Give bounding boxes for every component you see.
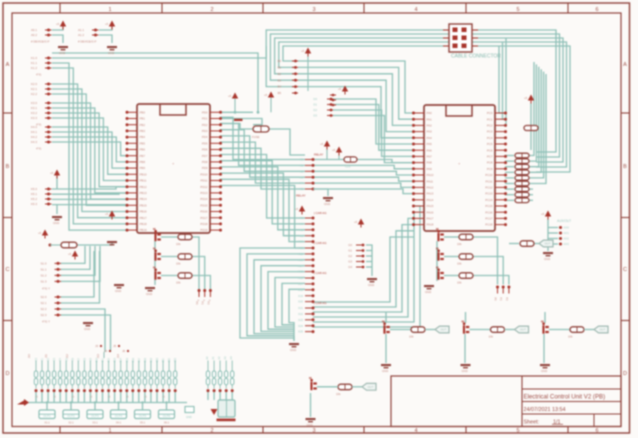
fuse F1 vcc2 stem [270,98,272,113]
svg-text:A0.1: A0.1 [31,28,37,32]
wire bottom riser 21 [162,392,164,403]
net flag FB3 [594,326,608,333]
wire net BLM0 [61,251,94,297]
svg-text:10k: 10k [457,242,462,246]
wire net BLr1 [192,257,205,290]
svg-text:PA7: PA7 [427,155,433,159]
svg-text:+5: +5 [68,252,72,256]
wire QB1 riser [385,312,387,323]
bottom header H10 [89,361,91,372]
wire net T0 [283,46,570,172]
wire net VB3 [333,116,414,163]
top cluster2 vcc [342,86,348,92]
svg-text:G4: G4 [348,265,352,269]
svg-text:P0: P0 [195,301,199,305]
wire bottom riser 17 [138,392,140,403]
wire net L12 [52,142,127,156]
svg-text:D0: D0 [313,97,317,101]
resistor RQ2 [178,254,192,259]
svg-text:PB15: PB15 [140,203,147,207]
svg-text:AX3: AX3 [564,242,570,246]
wire net R7 [505,194,514,196]
resistor RM1 [520,241,534,247]
resistor array supply vcc [528,95,534,101]
ic U2 pin left 2 [414,118,424,120]
svg-text:10k: 10k [176,281,181,285]
transistor group QB2 ground [461,364,471,366]
svg-text:PD0: PD0 [202,110,208,114]
label cluster tick [103,352,105,358]
svg-text:X23: X23 [298,318,303,322]
svg-text:X17: X17 [298,282,303,286]
wire lone q to r [317,386,338,388]
svg-text:K1.1: K1.1 [31,61,37,65]
wire net L1 [52,68,127,224]
bottom connector X4 [111,410,127,419]
svg-text:OUT: OUT [368,385,374,389]
wire net BRr2 [473,276,509,285]
svg-text:PD4: PD4 [202,135,208,139]
svg-text:FUSE: FUSE [252,135,260,139]
svg-text:# DEVICE/O.P: # DEVICE/O.P [78,40,96,44]
bottom header H14 [114,361,116,372]
center header pin [305,331,313,333]
svg-text:X5: X5 [300,187,304,191]
svg-text:PD12: PD12 [200,185,208,189]
wire net L4 [52,94,127,205]
wire bottom riser 13 [114,392,116,403]
ic U1 pin left 9 [127,161,137,163]
wire net BR0 [444,236,459,238]
ic U2 pin right 21 [495,118,505,120]
svg-text:10k: 10k [457,262,462,266]
resistor RB2 [491,327,505,333]
ic U1 pin right 36 [210,204,220,206]
resistor RN1-2 [515,159,529,164]
bottom header H2 [41,361,43,372]
svg-text:PC12: PC12 [485,186,493,190]
left group IN6 vcc top [42,230,48,236]
center header pin [305,182,313,184]
center header pin [305,301,313,303]
ic U1 body [137,104,210,233]
ic U1 pin right 40 [210,229,220,231]
svg-text:PA0: PA0 [427,111,433,115]
svg-text:P0: P0 [494,297,498,301]
svg-text:+5: +5 [541,212,545,216]
bottom header H16 [126,361,128,372]
wire net N0 [240,248,305,338]
ic U2 pin left 14 [414,193,424,195]
wire net BLL2 [61,246,95,275]
net flag lone [362,383,376,390]
left vcc lower [72,251,78,257]
connector SV1 pin 5 [453,44,458,49]
wire aux pin stub 1 [548,232,558,234]
svg-text:C16: C16 [132,357,135,362]
wire net N3 [261,266,305,332]
connector SV1 pin 3 [453,36,458,41]
svg-text:3: 3 [312,428,315,434]
svg-text:OUT1: OUT1 [43,414,51,418]
svg-text:K3.3: K3.3 [31,116,37,120]
transistor Q4 [437,233,439,241]
svg-text:OUT: OUT [600,328,606,332]
svg-text:| CAR AG: | CAR AG [314,211,327,215]
fuse F1 bar [234,119,243,121]
bottom header H12 [102,361,104,372]
svg-text:+5: +5 [228,94,232,98]
svg-text:PD5: PD5 [202,141,208,145]
wire bottom drop 166 [166,403,168,411]
ic U1 pin left 5 [127,136,137,138]
svg-text:PC7: PC7 [487,155,493,159]
svg-text:RELAY: RELAY [314,153,323,157]
ic U2 pin left 4 [414,131,424,133]
wire net L7 [52,113,127,187]
wire bottom riser 11 [102,392,104,403]
svg-text:PB10: PB10 [140,172,147,176]
ic U2 pin right 27 [495,155,505,157]
wire net R5 [505,183,514,185]
ic U2 pin right 38 [495,224,505,226]
ic U1 pin left 18 [127,217,137,219]
svg-text:PD15: PD15 [200,203,208,207]
left group IN5 ground [52,216,62,218]
svg-text:X2: X2 [300,169,304,173]
wire net M11 [220,186,305,249]
wire net LD3 [52,204,127,207]
ic U1 pin right 22 [210,118,220,120]
wire net T1 [279,42,567,167]
ic U1 pin left 20 [127,229,137,231]
svg-text:X4: X4 [300,181,304,185]
ic U1 pin left 11 [127,173,137,175]
ic U1 notch [160,104,186,115]
svg-text:J13: J13 [96,353,100,358]
ic U2 pin left 10 [414,168,424,170]
wire net M1 [220,124,305,166]
left group IN5 vcc [54,170,60,176]
wire net N7 [289,289,305,322]
svg-text:D3: D3 [313,114,317,118]
wire net U2 [505,38,506,125]
ic U2 pin left 15 [414,199,424,201]
svg-text:X1-1: X1-1 [44,422,50,425]
aux connector vcc [545,211,551,217]
ic U2 pin left 17 [414,211,424,213]
resistor RQ1 [178,234,192,240]
svg-text:+5: +5 [50,171,54,175]
wire RB2 to flag [505,329,515,331]
wire net L0 [52,63,127,230]
svg-text:# DEVICE/O.P: # DEVICE/O.P [31,40,49,44]
ic U1 pin right 37 [210,211,220,213]
svg-text:PD8: PD8 [202,160,208,164]
wire net M10 [220,179,305,241]
net flag FB2 [515,326,529,333]
net flag right mid [539,240,553,247]
svg-text:PA18: PA18 [427,223,434,227]
wire net BLM2 [61,309,105,352]
svg-text:X22: X22 [298,312,303,316]
svg-text:X7: X7 [300,222,304,226]
wire net R6 [505,188,514,190]
svg-text:C17: C17 [138,357,141,362]
svg-text:OUT2: OUT2 [67,414,75,418]
svg-text:B: B [623,164,627,170]
svg-text:K2.0: K2.0 [31,82,37,86]
output pin P1 [203,289,206,292]
wire bottom riser 1 [41,392,43,403]
transistor Q7 [310,382,312,390]
wire net W4 [313,212,414,322]
svg-text:PA11: PA11 [427,179,434,183]
wire bottom drop 95 [94,403,96,411]
svg-text:PD18: PD18 [200,222,208,226]
wire net M4 [220,142,305,183]
bottom header H11 [96,361,98,372]
svg-text:PA6: PA6 [427,148,433,152]
resistor RB1 [411,327,425,333]
svg-text:GND: GND [368,283,374,287]
wire net BRr1 [473,257,503,285]
title block divider vertical [521,376,523,427]
aux bottom connector [218,400,235,417]
svg-text:5: 5 [516,7,519,13]
resistor RN1-8 [515,192,529,197]
svg-text:CD1: CD1 [345,165,351,169]
wire vcc cluster2 rail [99,26,112,30]
ic U1 pin right 34 [210,192,220,194]
connector SV1 stub right 1 [472,29,478,31]
wire net W5 [313,206,420,327]
ic U2 pin right 20 [495,112,505,114]
wire net L2 [52,84,127,218]
ic U1 pin right 35 [210,198,220,200]
svg-text:S2.3: S2.3 [41,313,47,317]
svg-text:PB13: PB13 [140,191,147,195]
output pin PB0 [496,286,499,289]
svg-text:PD11: PD11 [200,179,207,183]
bottom header H3 [47,361,49,372]
wire net LD1 [52,193,127,194]
svg-text:PD2: PD2 [202,123,208,127]
svg-text:PC6: PC6 [487,148,493,152]
svg-text:OUT6: OUT6 [163,414,171,418]
wire net VC1 [313,165,414,168]
wire oval to center riser [269,129,305,155]
fuse F1 stem [234,99,236,113]
mid cluster vcc stems [326,150,328,160]
ic U2 pin right 35 [495,205,505,207]
svg-text:X15: X15 [298,270,303,274]
aux bottom header AH5 [231,361,233,372]
svg-text:J3: J3 [95,344,99,348]
wire left g7 supply stem [56,176,58,189]
svg-text:+5: +5 [264,93,268,97]
svg-text:PB0: PB0 [140,110,146,114]
wire bottom riser 19 [150,392,152,403]
svg-text:GND: GND [84,327,90,331]
wire ic U1 right top rows to oval [220,119,262,125]
svg-text:X25: X25 [298,330,303,334]
supply group2 ground [107,46,117,48]
wire net VB2 [333,110,414,156]
svg-text:PC15: PC15 [485,204,493,208]
wire long net from left group to center [52,46,266,58]
connector SV1 pin 4 [462,36,467,41]
center group ground [323,197,333,199]
ic U2 pin left 1 [414,112,424,114]
wire net N2 [254,260,305,334]
svg-text:PA13: PA13 [427,192,434,196]
wire bottom riser 9 [89,392,91,403]
svg-text:+5: +5 [105,212,109,216]
wire aux riser 0 [207,392,209,400]
svg-text:J6: J6 [122,349,126,353]
svg-text:PA8: PA8 [427,161,433,165]
svg-text:PD3: PD3 [202,129,208,133]
wire mid pin stub 3 [366,261,372,263]
left oval run ground [107,241,117,243]
svg-text:OUT: OUT [441,328,447,332]
svg-text:J12: J12 [65,353,69,358]
svg-text:X13: X13 [298,258,303,262]
svg-text:PB7: PB7 [140,154,146,158]
ic U1 pin left 17 [127,211,137,213]
wire RB3 to flag [584,329,594,331]
ic U1 pin right 23 [210,124,220,126]
center header pin [305,241,313,243]
svg-text:PC5: PC5 [487,142,493,146]
wire net M8 [220,167,305,230]
svg-text:10k: 10k [457,281,462,285]
output pin P2 [209,289,212,292]
svg-text:B3: B3 [278,78,282,82]
svg-text:K4.3: K4.3 [31,140,37,144]
wire net T2 [275,38,563,162]
staircase area vcc [109,211,115,217]
supply group2 vcc [109,21,115,27]
svg-text:10k: 10k [409,335,414,339]
wire QB2 to resistor [470,329,491,331]
svg-text:X6: X6 [300,216,304,220]
svg-text:A0.2: A0.2 [31,33,37,37]
svg-text:X12: X12 [298,252,303,256]
center header pin [305,188,313,190]
ic U1 pin left 12 [127,180,137,182]
wire net RR4 [529,72,544,178]
title block row line 1 [522,388,621,390]
svg-text:+5: +5 [38,231,42,235]
center group ground link [313,189,328,196]
center header pin [305,259,313,261]
svg-text:OUT5: OUT5 [139,414,147,418]
svg-text:10k: 10k [176,262,181,266]
wire net L5 [52,103,127,199]
svg-text:X9: X9 [300,234,304,238]
svg-text:+5: +5 [295,207,299,211]
wire net R1 [505,160,514,162]
svg-text:X4-1: X4-1 [116,422,122,425]
svg-text:PC17: PC17 [485,217,493,221]
svg-text:PD19: PD19 [200,228,208,232]
svg-text:GND: GND [186,415,192,419]
svg-text:PC1: PC1 [487,117,493,121]
output pin PB2 [507,286,510,289]
wire net V0 [298,61,414,113]
wire transistor group3 ground drop [543,334,545,363]
resistor RQ7 [338,384,352,390]
bottom bus arrow [17,401,24,405]
wire lone r to flag [352,386,362,388]
bottom header H1 [35,361,37,372]
wire net V2 [298,74,414,126]
wire net L10 [52,132,127,168]
svg-text:PB19: PB19 [140,228,147,232]
wire transistor group2 ground drop [464,334,466,363]
ic U2 pin left 7 [414,149,424,151]
svg-text:PB5: PB5 [140,141,146,145]
lone group ground [306,418,316,420]
center header pin [305,229,313,231]
ic U2 pin left 13 [414,186,424,188]
svg-text:J11: J11 [44,353,48,358]
wire net L6 [52,108,127,193]
ic U1 pin right 26 [210,142,220,144]
svg-text:+5: +5 [524,96,528,100]
wire bottom riser 5 [65,392,67,403]
ic U2 body [424,105,495,231]
title block sheet divider [593,414,595,427]
wire bottom riser 6 [71,392,73,403]
svg-text:S2.0: S2.0 [41,295,47,299]
wire net R0 [505,155,514,157]
svg-text:OUT: OUT [520,328,526,332]
wire net RR5 [529,74,546,184]
wire net M0 [220,117,305,159]
svg-text:S1.3: S1.3 [41,280,47,284]
svg-text:+5: +5 [56,22,60,26]
svg-text:GND: GND [290,348,296,352]
aux bottom header AH4 [225,361,227,372]
svg-text:P1: P1 [201,301,205,305]
svg-text:C18: C18 [144,357,147,362]
top cluster vcc [305,48,311,54]
svg-text:X8: X8 [300,228,304,232]
svg-text:+5: +5 [105,22,109,26]
svg-text:C19: C19 [150,357,153,362]
wire net VC2 [313,171,414,175]
resistor RN1-7 [515,187,529,192]
svg-text:PA3: PA3 [427,130,433,134]
wire net V3 [298,80,414,131]
ic U1 pin right 39 [210,223,220,225]
transistor Q6 [437,271,439,279]
svg-text:D1: D1 [313,103,317,107]
svg-text:X24: X24 [298,324,303,328]
ic U1 pin right 33 [210,186,220,188]
svg-text:K3.0: K3.0 [31,101,37,105]
wire net RS7 [529,194,533,196]
wire net M7 [220,161,305,224]
frame column ticks top [59,3,61,13]
wire net L9 [52,127,127,174]
mid group ground [367,278,377,280]
wire net L3 [52,89,127,212]
aux bottom connector bar [217,419,236,422]
